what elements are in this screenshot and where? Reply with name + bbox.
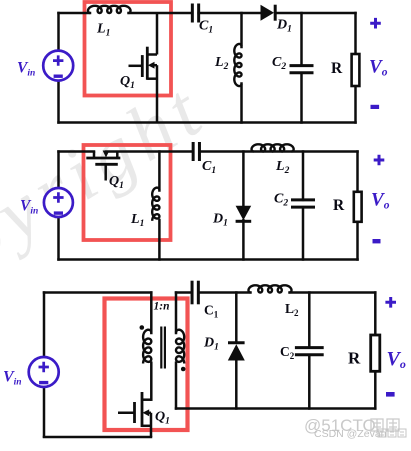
svg-text:1:n: 1:n (154, 301, 170, 313)
label + (circuit 1) (370, 18, 381, 29)
diode D1 (circuit 1) (261, 5, 275, 21)
wire: top rail secondary (circuit 3) (176, 291, 192, 294)
transformer dot secondary (181, 367, 186, 372)
svg-text:R: R (333, 197, 345, 214)
voltage source Vin (circuit 3) (29, 357, 59, 387)
transformer dot primary (140, 325, 145, 330)
wire: top rail primary (circuit 3) (44, 291, 151, 294)
wire: bottom rail secondary (circuit 3) (176, 407, 375, 410)
wire: bottom rail circuit 2 (59, 258, 358, 261)
capacitor C2 (circuit 3) (295, 346, 324, 349)
capacitor C2 (circuit 2) (291, 198, 315, 201)
capacitor C1 (circuit 1) (191, 4, 194, 23)
wire: top rail circuit 1 (59, 12, 91, 15)
inductor L2 (circuit 3) (249, 285, 292, 292)
transformer secondary winding (circuit 3) (175, 293, 178, 334)
voltage source Vin (circuit 1) (43, 51, 73, 81)
transformer primary winding (circuit 3) (150, 293, 153, 334)
wire: C2 branch (circuit 1) (300, 13, 303, 66)
svg-text:R: R (331, 60, 343, 77)
red highlight box 2 (84, 145, 171, 240)
diode D1 (circuit 3, pointing up) (228, 341, 245, 344)
wire: right rail circuit 3 (374, 293, 377, 336)
wire: C2 branch (circuit 3) (308, 293, 311, 348)
label + (circuit 2) (374, 155, 385, 166)
diode D1 (circuit 2, pointing down) (236, 206, 252, 221)
transistor Q1 (circuit 2, horizontal) (86, 152, 120, 181)
wire: D1 branch (circuit 2) (242, 152, 245, 207)
wire: left rail circuit 2 (57, 152, 60, 189)
wire: top rail circuit 2 (59, 150, 95, 153)
red highlight box 3 (105, 299, 188, 431)
label - (circuit 1) (371, 105, 380, 109)
transformer core (160, 327, 162, 369)
wire: left rail circuit 3 (43, 293, 46, 358)
wire: bottom rail circuit 1 (59, 121, 356, 124)
capacitor C1 (circuit 3) (191, 281, 194, 305)
svg-text:CSDN @Zevan: CSDN @Zevan (314, 428, 387, 440)
capacitor C1 (circuit 2) (192, 142, 195, 161)
inductor L2 (circuit 2) (252, 144, 294, 151)
transistor Q1 (circuit 3) (118, 392, 151, 437)
label - (circuit 3) (386, 392, 395, 397)
resistor R (circuit 3) (371, 335, 380, 371)
wire: L1 branch (circuit 2) (158, 152, 161, 191)
label - (circuit 2) (373, 239, 381, 243)
wire: L2 branch (circuit 1) (240, 13, 243, 47)
wire: left rail circuit 1 (57, 13, 60, 51)
wire: right rail circuit 1 (354, 13, 357, 54)
resistor R (circuit 2) (354, 192, 362, 222)
red highlight box 1 (85, 2, 172, 96)
inductor L1 (circuit 1) (88, 6, 131, 13)
inductor L1 (circuit 2) (152, 188, 159, 221)
wire: C2 branch (circuit 2) (302, 152, 305, 200)
wire: right rail circuit 2 (356, 152, 359, 192)
svg-text:R: R (348, 349, 361, 368)
wire: D1 branch (circuit 3) (235, 293, 238, 343)
resistor R (circuit 1) (352, 54, 360, 86)
inductor L2 (circuit 1) (234, 44, 241, 86)
voltage source Vin (circuit 2) (44, 188, 73, 217)
transistor Q1 (circuit 1) (129, 13, 158, 123)
wire: bottom rail primary (circuit 3) (44, 436, 151, 439)
label + (circuit 3) (385, 297, 396, 308)
capacitor C2 (circuit 1) (290, 64, 314, 67)
